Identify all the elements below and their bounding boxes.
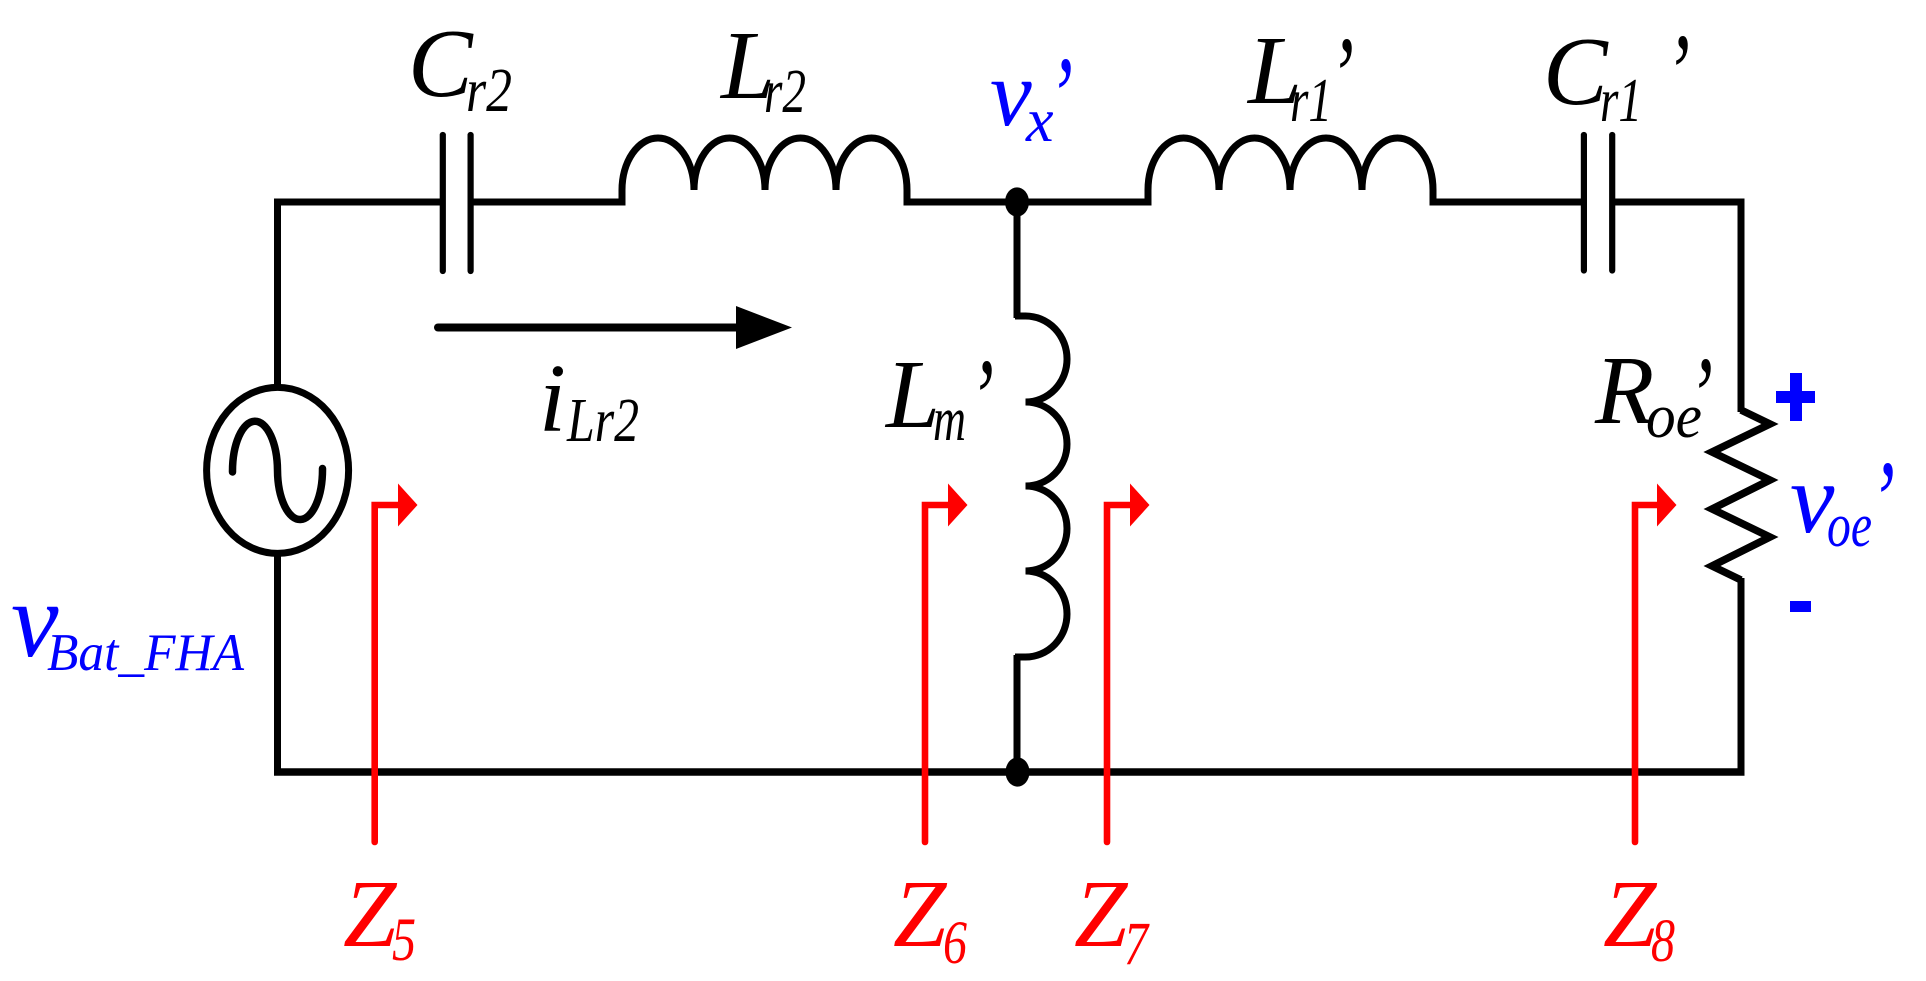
capacitor C2 plates (Cr2) <box>443 135 471 271</box>
svg-text:8: 8 <box>1651 908 1675 975</box>
inductor L2 (Lr1') <box>1148 138 1433 206</box>
svg-text:5: 5 <box>392 907 416 974</box>
svg-text:m: m <box>933 386 966 454</box>
wire Cr1 to top-right corner down to resistor <box>1611 202 1741 412</box>
ac source V1 circle <box>207 387 349 553</box>
svg-text:’: ’ <box>1048 35 1073 159</box>
svg-text:r2: r2 <box>466 57 512 125</box>
svg-text:6: 6 <box>943 910 967 977</box>
label Roe' <box>1594 335 1713 459</box>
inductor L3 vertical (Lm') <box>1015 316 1067 657</box>
svg-text:Z: Z <box>1074 860 1129 967</box>
wire Lr1 to Cr1 <box>1431 199 1585 206</box>
label Z5 <box>343 860 416 974</box>
svg-text:Z: Z <box>893 860 948 967</box>
label Z7 <box>1074 860 1150 978</box>
impedance arrow Z6 <box>925 484 968 843</box>
svg-text:i: i <box>539 345 566 452</box>
wire Lr2 to Lr1 through node vx <box>905 199 1150 206</box>
node vx junction dot <box>1005 187 1029 216</box>
svg-text:L: L <box>884 341 940 448</box>
svg-text:Bat_FHA: Bat_FHA <box>47 624 245 682</box>
impedance arrow Z7 <box>1107 484 1150 843</box>
svg-text:oe: oe <box>1827 492 1872 560</box>
current arrow iLr2 <box>438 306 792 349</box>
label voe' output voltage <box>1790 439 1895 563</box>
wire resistor bottom to bottom rail <box>1738 578 1745 772</box>
label vx' node voltage <box>990 35 1073 159</box>
label Cr1' <box>1543 12 1690 136</box>
label Lr1' <box>1246 15 1354 139</box>
wire source bottom to bottom rail <box>274 554 281 772</box>
wire bottom rail <box>274 768 1745 776</box>
label Z8 <box>1603 860 1675 975</box>
label Z6 <box>893 860 967 977</box>
resistor R1 zigzag (Roe') <box>1712 410 1770 580</box>
wire top-left: source to Cr2 left plate <box>278 202 442 388</box>
ac source sine wave <box>232 421 322 519</box>
label Lm' <box>884 337 994 461</box>
impedance arrow Z5 <box>375 484 418 843</box>
label Lr2 <box>719 12 806 126</box>
polarity plus sign <box>1776 373 1815 421</box>
capacitor C1 plates (Cr1') <box>1584 135 1612 271</box>
inductor L1 (Lr2) <box>622 138 907 206</box>
svg-text:r1: r1 <box>1600 67 1642 135</box>
svg-text:Z: Z <box>343 860 398 967</box>
polarity minus sign <box>1790 601 1811 612</box>
bottom junction dot <box>1006 757 1030 786</box>
svg-text:Z: Z <box>1603 860 1658 967</box>
impedance arrow Z8 <box>1635 484 1677 843</box>
label iLr2 current <box>539 345 639 455</box>
svg-text:C: C <box>408 10 474 117</box>
svg-text:’: ’ <box>969 337 994 461</box>
wire node vx down to Lm <box>1014 200 1021 318</box>
svg-text:7: 7 <box>1124 911 1150 978</box>
svg-text:’: ’ <box>1688 335 1713 459</box>
label Cr2 <box>408 10 512 125</box>
svg-text:r1: r1 <box>1290 67 1332 135</box>
svg-text:’: ’ <box>1329 15 1354 139</box>
svg-text:’: ’ <box>1870 439 1895 563</box>
wire Lm bottom to bottom node <box>1014 655 1021 772</box>
svg-text:Lr2: Lr2 <box>566 387 639 455</box>
svg-text:’: ’ <box>1665 12 1690 136</box>
wire Cr2 to Lr2 <box>471 199 624 206</box>
label vBat_FHA source voltage <box>11 562 245 682</box>
svg-text:r2: r2 <box>764 58 806 126</box>
